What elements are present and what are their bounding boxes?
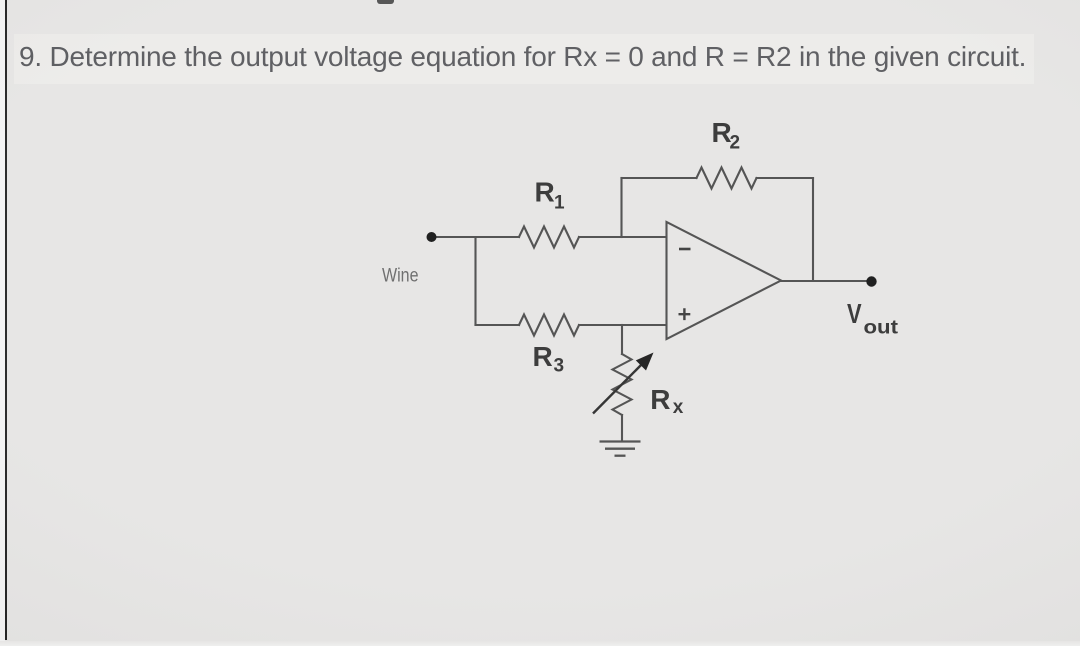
left page light strip — [0, 0, 5, 646]
Rx wiper arrow — [593, 353, 654, 414]
cropped glyph fragment at top — [377, 0, 394, 4]
wire branch to R3 — [476, 324, 520, 326]
question text highlight strip — [14, 34, 1034, 84]
resistor R1 — [519, 227, 579, 248]
svg-text:x: x — [673, 397, 684, 418]
wire vertical branch — [474, 237, 476, 325]
svg-text:3: 3 — [554, 356, 565, 377]
left page border line — [5, 0, 7, 640]
wire feedback top right — [757, 177, 814, 179]
op-amp minus marker — [679, 248, 691, 251]
wire R1 to inverting input — [579, 236, 666, 238]
svg-text:2: 2 — [730, 133, 741, 154]
wire feedback top left — [622, 177, 697, 179]
wire R3 to non-inverting input — [579, 324, 666, 326]
svg-text:R: R — [533, 341, 553, 372]
svg-text:out: out — [864, 317, 899, 339]
op-amp U1 — [667, 222, 782, 339]
resistor Rx zigzag — [613, 354, 632, 415]
node input dot — [427, 232, 437, 242]
resistor R3 — [519, 315, 579, 336]
question text — [19, 41, 1069, 73]
resistor R2 — [697, 168, 757, 189]
svg-text:R: R — [650, 384, 670, 415]
svg-text:1: 1 — [554, 192, 565, 213]
wire feedback left vertical — [620, 178, 622, 237]
wire input to R1 — [437, 236, 520, 238]
svg-text:R: R — [535, 177, 555, 208]
wire Rx top — [621, 325, 623, 354]
node output dot — [866, 276, 876, 286]
ground — [600, 442, 641, 456]
svg-text:V: V — [847, 298, 862, 329]
wire output — [781, 280, 871, 282]
op-amp plus marker — [679, 308, 691, 320]
svg-text:Wine: Wine — [382, 266, 419, 287]
wire Rx to ground — [621, 415, 623, 441]
wire feedback right vertical — [812, 178, 814, 281]
